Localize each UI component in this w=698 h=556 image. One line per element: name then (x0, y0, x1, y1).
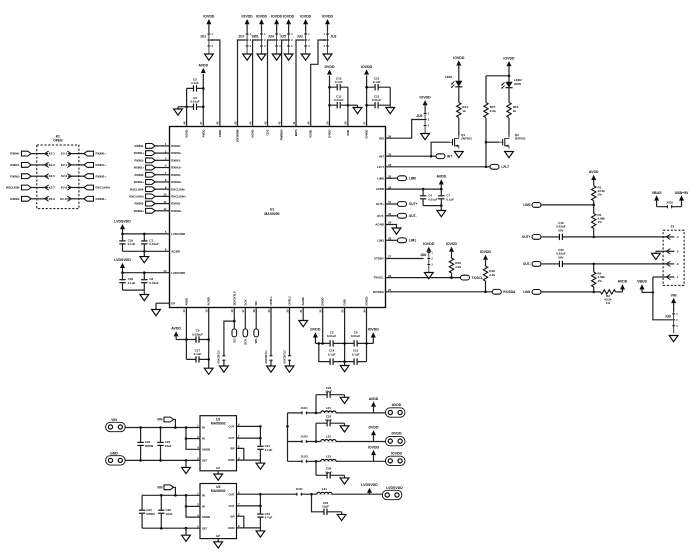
ground (257, 54, 266, 60)
wire (186, 505, 200, 507)
wire (288, 460, 386, 462)
power flag DVDD (310, 328, 322, 344)
wire pin22 rail (322, 308, 324, 344)
U1 pin 25 RX/SDA (373, 288, 392, 294)
junction (202, 87, 205, 90)
header pin K2-7 (45, 185, 56, 190)
junction (422, 188, 425, 191)
U3 pin2 BP stub (237, 516, 244, 528)
ground (220, 366, 229, 372)
inductor L22 (321, 435, 336, 443)
wire (31, 153, 45, 155)
svg-text:DVDD: DVDD (369, 426, 379, 430)
transistor Q1 2N7002 (449, 133, 472, 149)
svg-text:IN: IN (202, 437, 205, 441)
U1 pin 28 LIM1 (377, 237, 391, 243)
jumper JU6 (416, 95, 431, 133)
svg-text:RXIN2+: RXIN2+ (171, 180, 182, 184)
connector pad RXIN1+ (155, 164, 182, 170)
wire Q1 gate (431, 142, 449, 156)
header pin J1-2 (666, 261, 679, 266)
header pin K2-1 (45, 151, 56, 156)
U1 pin 24 IOVDD (362, 296, 368, 312)
wire Q2 gate (486, 141, 499, 143)
svg-text:BP: BP (231, 447, 235, 451)
svg-text:0.033uF: 0.033uF (192, 332, 203, 336)
svg-text:OUT-: OUT- (377, 214, 384, 218)
U1 pin 47 AVDD (199, 121, 205, 137)
wire AUXCNTL2 (289, 308, 291, 367)
connector pad RXIN1- (155, 157, 181, 163)
wire (31, 164, 45, 166)
wire (653, 277, 672, 320)
svg-text:4.7uF: 4.7uF (265, 448, 273, 452)
junction (484, 291, 487, 294)
connector K2 OPEN dashed outline (37, 135, 79, 209)
svg-text:RXIN1+: RXIN1+ (96, 163, 107, 167)
svg-text:12: 12 (163, 207, 167, 211)
connector pad RXCLKIN- (155, 185, 185, 191)
svg-text:AVDD: AVDD (376, 187, 385, 191)
power flag VIN (671, 293, 677, 311)
svg-text:AVDD: AVDD (218, 130, 222, 138)
svg-text:GND: GND (343, 299, 347, 305)
svg-text:43: 43 (263, 121, 267, 125)
capacitor C9 0.033uF (186, 329, 208, 343)
wire VIN row (125, 427, 200, 429)
svg-text:JU3: JU3 (330, 35, 336, 39)
svg-text:LVDSVDD: LVDSVDD (361, 483, 378, 487)
ground (182, 460, 191, 473)
svg-text:23: 23 (340, 309, 344, 313)
junction (592, 204, 595, 207)
svg-text:K2-8: K2-8 (61, 186, 68, 190)
wire (541, 236, 556, 238)
ground (652, 251, 661, 259)
capacitor C5 0.1uF (187, 78, 204, 92)
wire (71, 187, 84, 189)
svg-text:K2-1: K2-1 (49, 152, 56, 156)
wire lower rail (319, 343, 345, 361)
connector pad RXIN2- (155, 171, 181, 177)
svg-text:1%: 1% (606, 301, 611, 305)
svg-text:2.2k: 2.2k (490, 109, 496, 113)
svg-text:IOVDD: IOVDD (365, 130, 369, 139)
svg-text:RXIN0-: RXIN0- (171, 144, 181, 148)
svg-text:RXIN0+: RXIN0+ (171, 151, 182, 155)
ground (205, 54, 214, 60)
svg-text:46: 46 (216, 121, 220, 125)
svg-text:24: 24 (362, 309, 366, 313)
svg-text:USB+5V: USB+5V (675, 191, 689, 195)
svg-text:2.2k: 2.2k (489, 273, 495, 277)
wire JU5 to U1 (282, 40, 288, 127)
ground (340, 395, 349, 404)
svg-text:2N7002: 2N7002 (461, 136, 472, 140)
svg-text:LVDSVDD: LVDSVDD (171, 232, 186, 236)
inductor L21 (321, 406, 336, 414)
wire (31, 187, 45, 189)
ground (267, 366, 276, 372)
junction (259, 425, 262, 428)
ground (152, 303, 161, 316)
wire IN row (142, 494, 200, 496)
wire LFLT (386, 166, 491, 168)
header pin J1-4 (666, 234, 679, 239)
svg-text:OUT-: OUT- (523, 262, 531, 266)
ground (174, 107, 187, 115)
wire (174, 420, 176, 428)
ground (182, 528, 191, 541)
junction (286, 425, 289, 428)
power flag DVDD (325, 65, 335, 75)
svg-text:0.01uF: 0.01uF (428, 197, 438, 201)
connector pad RXIN0- (155, 142, 181, 148)
svg-text:JU7: JU7 (238, 35, 244, 39)
svg-text:VIN: VIN (111, 418, 117, 422)
jumper JU3 (322, 14, 337, 53)
svg-text:2N7002: 2N7002 (515, 136, 526, 140)
svg-text:OPEN: OPEN (145, 444, 153, 448)
svg-text:0.01uF: 0.01uF (149, 281, 159, 285)
capacitor C8 0.01uF (141, 273, 159, 290)
power flag DVDD (369, 426, 379, 442)
U1 pin EP (156, 302, 175, 306)
connector pad RXIN3- (10, 196, 31, 201)
svg-text:IOVDD: IOVDD (453, 56, 465, 60)
test point LIM1 (398, 238, 417, 243)
wire (656, 250, 666, 252)
connector pad RXCLKIN- (6, 185, 31, 190)
svg-text:LIM1: LIM1 (409, 239, 416, 243)
connector pad RXIN2+ (84, 174, 106, 179)
U1 pin 22 DVDD (319, 297, 325, 312)
power flag VBUS (637, 280, 647, 293)
wire AVDD pin32 (386, 188, 442, 190)
svg-text:11: 11 (163, 200, 166, 204)
test point OUT- net (523, 262, 541, 267)
svg-text:OUT+: OUT+ (522, 235, 531, 239)
svg-text:AUXCNTL2: AUXCNTL2 (283, 350, 286, 364)
power flag AVDD (436, 175, 446, 189)
svg-text:SW1: SW1 (252, 35, 259, 39)
svg-text:RXIN0-: RXIN0- (10, 152, 20, 156)
ground (301, 54, 310, 60)
connector pad RXIN3+ (84, 196, 106, 201)
svg-text:AVDD: AVDD (392, 403, 402, 407)
svg-text:0.01uF: 0.01uF (351, 334, 361, 338)
svg-text:OPEN: OPEN (53, 139, 63, 143)
wire pin21 (302, 308, 304, 321)
svg-text:SCK: SCK (243, 338, 247, 345)
svg-text:AGND: AGND (171, 249, 181, 253)
wire AUXCNTL1 (270, 308, 272, 367)
capacitor C10 0.1uF (330, 76, 348, 90)
ground (424, 273, 433, 279)
svg-text:RXIN1+: RXIN1+ (134, 166, 145, 170)
jumper JU1 (200, 14, 215, 53)
svg-text:50V: 50V (558, 228, 563, 232)
svg-text:47: 47 (199, 121, 203, 125)
jumper JU21 (301, 406, 308, 415)
jumper JUCNTL0 (218, 350, 226, 364)
U1 pin 5 LVDSVDD (165, 230, 186, 236)
svg-text:GND: GND (228, 458, 234, 462)
transistor Q2 2N7002 (499, 133, 526, 149)
svg-text:AGND: AGND (251, 130, 255, 138)
jumper JU31 (296, 487, 303, 496)
svg-text:CDS: CDS (266, 129, 270, 135)
header pin K2-9 (45, 196, 56, 201)
capacitor C19 0.22uF 50V (556, 221, 566, 240)
svg-text:0.01uF: 0.01uF (149, 242, 159, 246)
junction (185, 338, 188, 341)
wire pin47 rail (202, 74, 204, 127)
U1 pin 17 SCK (241, 299, 247, 313)
svg-text:RXIN0-: RXIN0- (135, 144, 145, 148)
svg-text:RXIN3+: RXIN3+ (96, 197, 107, 201)
U1 pin 6 AGND (165, 248, 181, 254)
ground (256, 460, 265, 469)
svg-text:OUT+: OUT+ (376, 202, 384, 206)
svg-text:41: 41 (292, 121, 296, 125)
svg-text:OUT-: OUT- (409, 214, 417, 218)
svg-text:RXIN3-: RXIN3- (10, 197, 20, 201)
svg-text:AUXCNTL0: AUXCNTL0 (218, 350, 221, 364)
test point VIN (157, 417, 173, 422)
power flag AVDD (198, 63, 208, 73)
header pin K2-2 (61, 151, 71, 156)
connector pad RXIN2- (10, 174, 31, 179)
svg-text:RXIN1-: RXIN1- (171, 158, 181, 162)
ground (340, 475, 349, 484)
connector pad RXIN0+ (84, 151, 106, 156)
capacitor C34 10uF (312, 494, 342, 515)
svg-text:LIM0: LIM0 (377, 176, 384, 180)
svg-text:RXTERM: RXTERM (236, 129, 240, 142)
svg-text:IOVDD: IOVDD (391, 451, 403, 455)
svg-text:AGND: AGND (309, 130, 313, 138)
svg-text:K2-10: K2-10 (60, 197, 68, 201)
U1 pin 46 AVDD (216, 121, 222, 137)
test point OUT+ (398, 202, 418, 207)
svg-text:LIM1: LIM1 (523, 290, 530, 294)
ground (204, 368, 213, 374)
jumper JU4 (268, 14, 283, 53)
svg-text:39: 39 (325, 121, 329, 125)
svg-text:1%: 1% (598, 193, 603, 197)
svg-text:IOVDD: IOVDD (368, 445, 380, 449)
jumper JU2 (297, 14, 312, 53)
inductor L23 (321, 454, 336, 462)
wire GND row (142, 527, 200, 529)
wire (657, 206, 682, 208)
U1 pin 16 SD/CNTL0 (230, 291, 236, 312)
svg-text:RXIN1-: RXIN1- (10, 163, 20, 167)
svg-text:DVDD: DVDD (325, 65, 335, 69)
svg-text:22: 22 (319, 309, 323, 313)
svg-text:IOVDD: IOVDD (420, 95, 432, 99)
svg-text:JU31: JU31 (296, 487, 303, 491)
capacitor C3 0.01uF (187, 96, 204, 110)
U1 pin 14 LVDSVDD (163, 269, 186, 275)
banana jack LVDSVDD (382, 486, 403, 500)
wire (423, 205, 441, 207)
svg-text:WS: WS (254, 301, 258, 306)
svg-text:0.1uF: 0.1uF (446, 197, 454, 201)
capacitor C6 0.01uF (345, 331, 367, 347)
junction (321, 342, 324, 345)
U1 pin 26 TX/SCL (373, 274, 391, 280)
test point TX/SCL (461, 275, 483, 280)
svg-text:JU2: JU2 (297, 35, 303, 39)
svg-text:GND: GND (228, 526, 234, 530)
svg-text:OPEN: OPEN (146, 512, 154, 516)
svg-text:JU10: JU10 (666, 200, 673, 204)
wire pin37 rail (366, 76, 368, 127)
ground (243, 54, 252, 60)
svg-text:1%: 1% (598, 220, 603, 224)
wire (541, 263, 556, 265)
wire (593, 201, 595, 214)
wire pin14 LVDSVDD (123, 272, 170, 274)
svg-text:IOVDD: IOVDD (322, 14, 334, 18)
svg-text:17: 17 (241, 309, 245, 313)
svg-text:CNTL2: CNTL2 (288, 296, 292, 306)
wire OUT row (237, 425, 261, 427)
wire pin38 rail (347, 87, 349, 126)
wire OUT row (237, 493, 261, 495)
svg-text:0.1uF: 0.1uF (128, 242, 136, 246)
jumper JU22 (301, 435, 308, 444)
ground (337, 512, 346, 521)
wire AGND (386, 225, 397, 229)
svg-text:STDBY: STDBY (374, 257, 384, 261)
wire OUT- (386, 215, 398, 217)
svg-text:DVDD: DVDD (392, 432, 402, 436)
wire (31, 175, 45, 177)
svg-text:EP: EP (171, 302, 175, 306)
U1 pin 48 AGND (182, 121, 188, 138)
power flag LVDSVDD (114, 258, 131, 273)
capacitor C23 10uF (157, 428, 172, 461)
svg-text:IOVDD: IOVDD (480, 250, 492, 254)
svg-text:VIN: VIN (157, 418, 163, 422)
svg-text:JU22: JU22 (301, 435, 308, 439)
svg-text:RXIN1+: RXIN1+ (171, 166, 182, 170)
svg-text:0.1uF: 0.1uF (335, 80, 343, 84)
wire LIM0 (386, 177, 398, 179)
svg-text:AVDD: AVDD (618, 280, 628, 284)
svg-text:21: 21 (299, 309, 303, 313)
wire LIM1 (386, 239, 398, 241)
svg-text:L22: L22 (326, 435, 331, 439)
svg-text:0.1uF: 0.1uF (128, 281, 136, 285)
svg-text:IOVDD: IOVDD (446, 242, 458, 246)
svg-text:0.1uF: 0.1uF (194, 352, 202, 356)
junction (160, 494, 163, 497)
svg-text:AGND: AGND (207, 297, 211, 305)
wire (593, 228, 595, 237)
svg-text:45: 45 (233, 121, 237, 125)
capacitor C15 0.1uF (345, 349, 367, 365)
svg-text:2.2k: 2.2k (455, 265, 461, 269)
svg-text:CNTL1: CNTL1 (269, 296, 273, 306)
svg-text:K2-5: K2-5 (49, 174, 56, 178)
junction (508, 75, 511, 78)
svg-text:0.01uF: 0.01uF (327, 334, 337, 338)
svg-text:37: 37 (362, 121, 366, 125)
junction (121, 233, 124, 236)
wire U3 input rail (141, 495, 143, 528)
junction (430, 155, 433, 158)
wire pin23 rail (344, 308, 346, 362)
svg-text:LIM1: LIM1 (377, 238, 384, 242)
capacitor C2 0.01uF (323, 331, 345, 347)
test point SCK (243, 308, 248, 345)
header pin K2-4 (61, 162, 71, 167)
svg-text:K2-6: K2-6 (61, 174, 68, 178)
wire (71, 153, 84, 155)
U1 pin 30 OUT- (377, 212, 392, 218)
wire pin48 rail (186, 88, 188, 126)
resistor R3 4.99k 1% (591, 213, 606, 228)
junction (233, 320, 236, 323)
junction (440, 204, 443, 207)
svg-text:10uF: 10uF (325, 418, 332, 422)
svg-text:0.01uF: 0.01uF (334, 98, 344, 102)
svg-text:IN: IN (202, 505, 205, 509)
capacitor C12 0.1uF (367, 76, 391, 90)
wire (541, 204, 594, 206)
ground (386, 105, 395, 114)
junction (121, 271, 124, 274)
jumper SW1 (252, 14, 268, 53)
svg-text:18: 18 (252, 309, 256, 313)
U1 pin 34 LFLT (377, 163, 392, 169)
svg-text:20: 20 (285, 309, 289, 313)
svg-text:0.1uF: 0.1uF (328, 352, 336, 356)
svg-text:LVDSVDD: LVDSVDD (171, 271, 186, 275)
connector pad RXIN1+ (84, 163, 106, 168)
svg-text:RXIN1-: RXIN1- (135, 158, 145, 162)
svg-text:RXIN2-: RXIN2- (135, 173, 145, 177)
wire OUT+ (386, 203, 398, 205)
svg-text:L31: L31 (322, 487, 327, 491)
capacitor C25 10uF (316, 415, 345, 442)
svg-text:INT: INT (379, 154, 384, 158)
wire (541, 291, 601, 293)
power flag AVDD (171, 327, 186, 340)
svg-text:RXIN0+: RXIN0+ (96, 152, 107, 156)
U1 pin 15 AGND (205, 297, 211, 312)
power flag IOVDD (361, 65, 373, 75)
EP ground (214, 471, 223, 480)
svg-text:0.01uF: 0.01uF (190, 100, 200, 104)
wire pin5 LVDSVDD (123, 233, 170, 235)
svg-text:LVDSVDD: LVDSVDD (114, 219, 131, 223)
svg-text:RX/SDA: RX/SDA (373, 290, 385, 294)
svg-text:L21: L21 (326, 406, 331, 410)
svg-text:LFLT: LFLT (502, 165, 510, 169)
jumper JU10 (666, 200, 673, 208)
ground (272, 54, 281, 60)
svg-text:AVDD: AVDD (369, 397, 379, 401)
svg-text:14: 14 (163, 269, 167, 273)
svg-text:IOVDD: IOVDD (283, 14, 295, 18)
wire RX/SDA (386, 291, 493, 293)
capacitor C26 10uF (316, 461, 345, 478)
